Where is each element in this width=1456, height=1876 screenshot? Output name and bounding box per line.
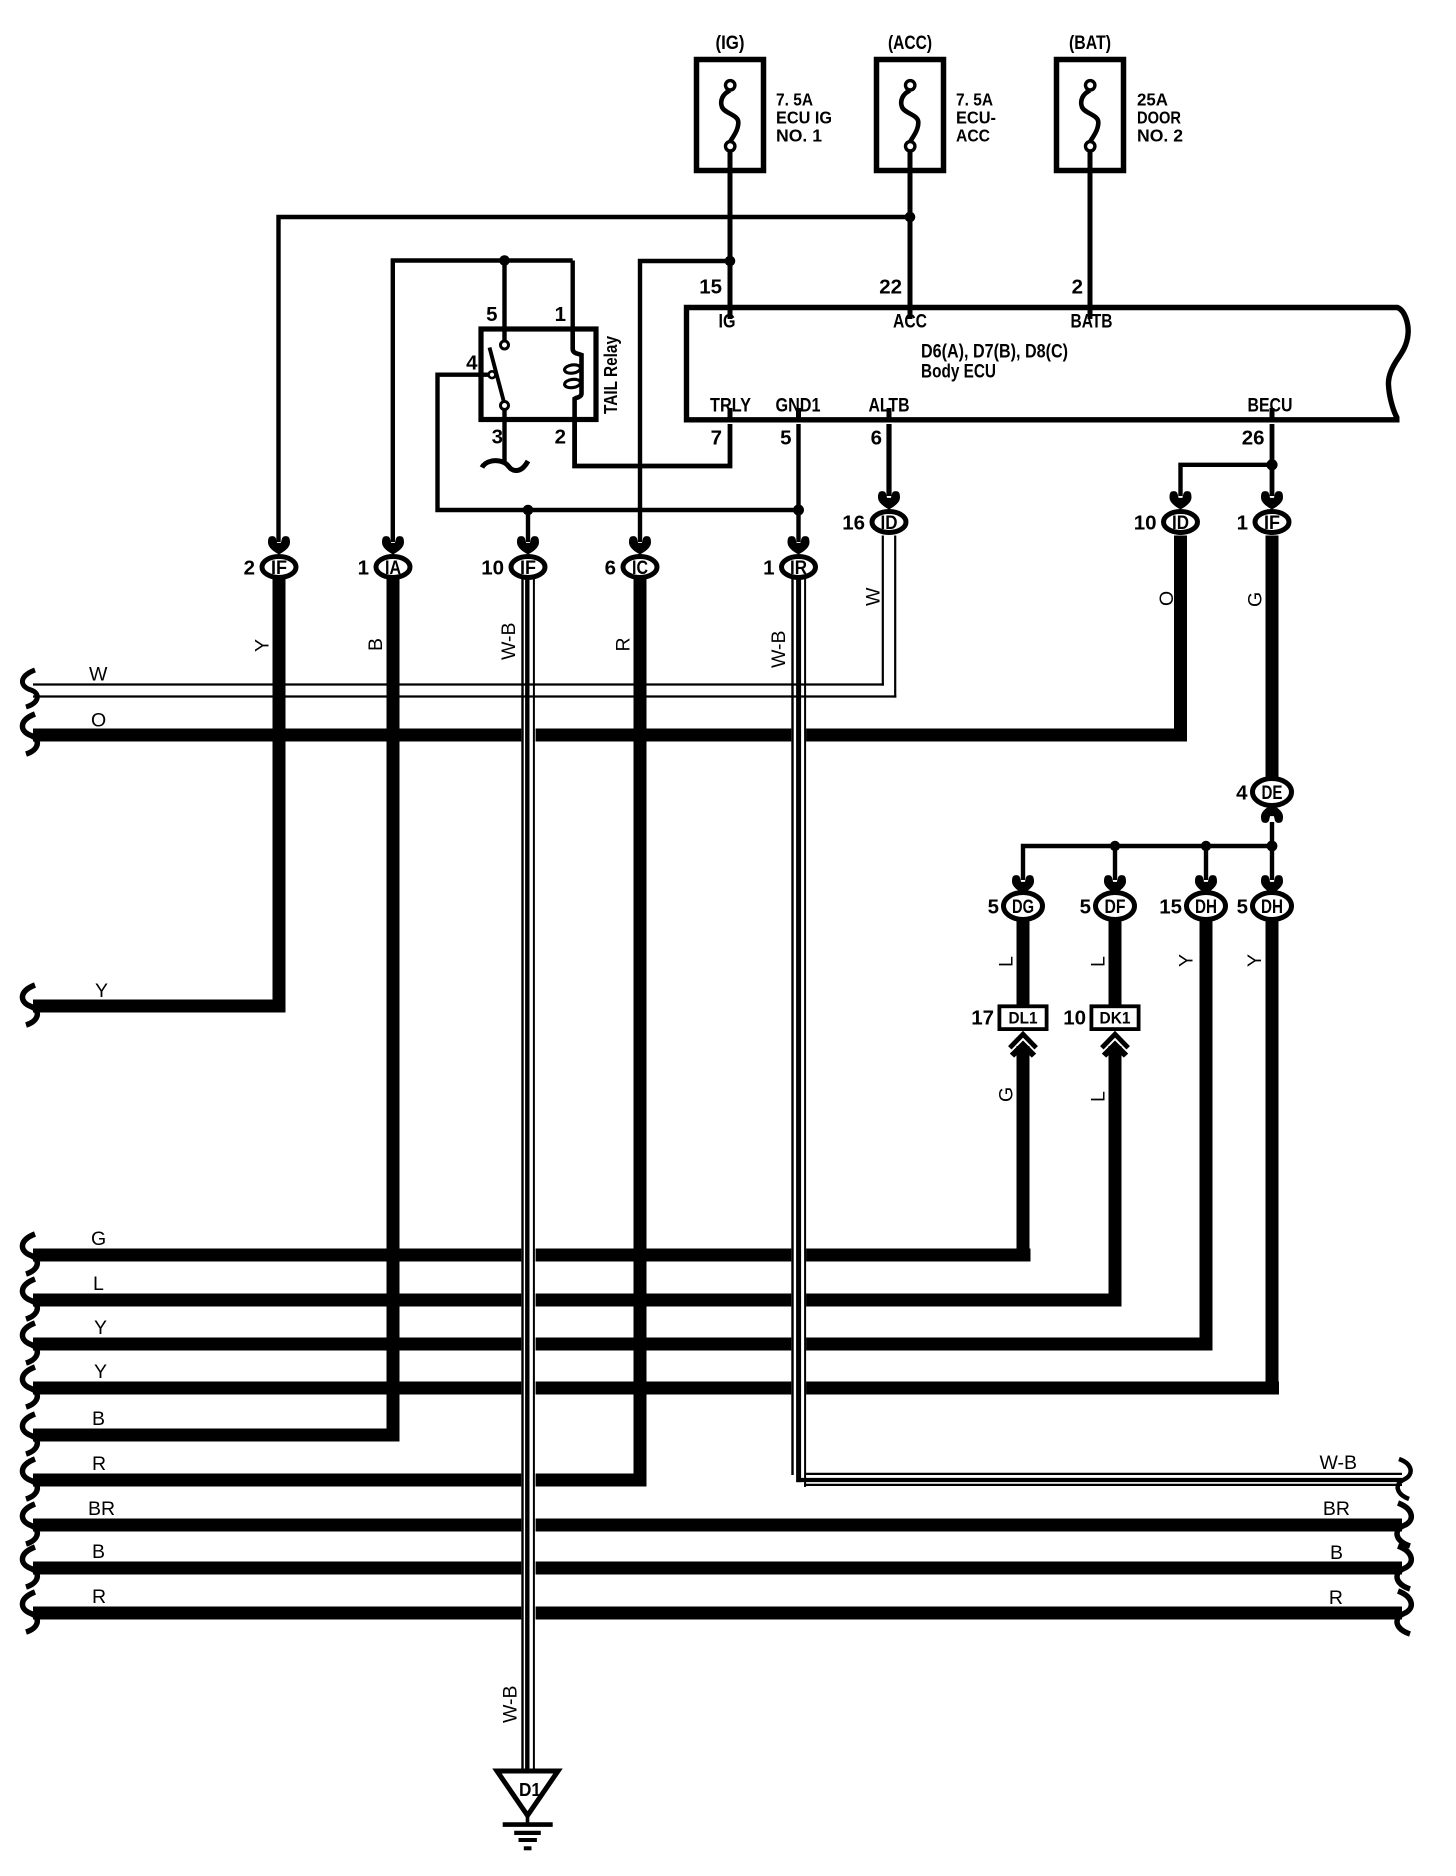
svg-text:5: 5 — [988, 896, 999, 919]
svg-text:6: 6 — [871, 427, 882, 450]
wire G vertical from connector IF to connector DE (thick) — [1266, 536, 1279, 781]
wire ECU GND1 pin 5 to connector IR — [796, 424, 800, 542]
svg-text:G: G — [91, 1228, 106, 1250]
svg-text:IR: IR — [790, 558, 807, 579]
pin stub ECU 6 — [887, 408, 892, 418]
wire L vertical from connector DF to junction DK1 (thick) — [1109, 919, 1122, 1007]
svg-text:1: 1 — [1237, 512, 1248, 535]
pin stub ECU 22 — [908, 310, 913, 319]
wire relay pin 4 to GND1 horizontal — [438, 375, 799, 510]
svg-text:10: 10 — [1134, 512, 1157, 535]
svg-text:BATB: BATB — [1071, 312, 1113, 333]
fuse F2 7.5A ECU-ACC box — [877, 60, 944, 171]
svg-text:5: 5 — [1237, 896, 1248, 919]
svg-text:3: 3 — [492, 426, 503, 449]
svg-text:7. 5A: 7. 5A — [776, 90, 813, 110]
connector 5 DG — [988, 875, 1043, 919]
connector 1 IF — [1237, 491, 1289, 534]
wire Y vertical from connector DH to upper Y bus (thick) — [1200, 919, 1213, 1351]
node BR bus break curl right — [1397, 1503, 1411, 1546]
wire W-B bus right (striped, horizontal) — [794, 1474, 1402, 1485]
svg-text:6: 6 — [605, 557, 616, 580]
svg-text:W-B: W-B — [768, 630, 790, 668]
svg-text:ECU-: ECU- — [956, 108, 996, 128]
svg-text:BECU: BECU — [1248, 396, 1293, 417]
relay TAIL Relay box — [481, 329, 596, 420]
svg-text:L: L — [93, 1273, 104, 1295]
wire W bus (white wire, horizontal) — [33, 683, 884, 685]
svg-text:DE: DE — [1262, 783, 1283, 804]
node R bus break curl left — [22, 1592, 37, 1632]
node G bus break curl — [22, 1234, 37, 1274]
svg-text:(ACC): (ACC) — [888, 32, 932, 54]
node W-B bus break curl right — [1398, 1459, 1411, 1499]
fuse F1 element — [721, 91, 738, 142]
node junction dot connector IF column on GND1 horizontal — [523, 505, 534, 516]
svg-text:10: 10 — [1063, 1007, 1086, 1030]
relay coil — [573, 329, 582, 420]
wire L vertical from connector DG to junction DL1 (thick) — [1017, 919, 1030, 1007]
wire Y vertical from connector DH to lower Y bus (thick) — [1266, 919, 1279, 1395]
node junction dot ACC feed — [905, 212, 916, 223]
ground bar 2 — [514, 1831, 541, 1835]
svg-text:R: R — [92, 1453, 106, 1475]
node junction dot BECU branch — [1266, 459, 1277, 470]
svg-text:Y: Y — [94, 1317, 107, 1339]
node junction dot GND1 — [793, 505, 804, 516]
svg-text:4: 4 — [466, 352, 478, 375]
pin stub ECU 15 — [728, 310, 733, 319]
svg-text:ECU IG: ECU IG — [776, 108, 832, 128]
wire connector IF column drop from GND1 horizontal — [526, 510, 530, 542]
svg-text:7: 7 — [711, 427, 722, 450]
node Y bus break curl — [22, 1367, 37, 1407]
ground stem — [526, 1813, 530, 1825]
svg-text:R: R — [92, 1586, 106, 1608]
svg-text:W: W — [863, 587, 885, 606]
svg-text:2: 2 — [555, 426, 566, 449]
connector 15 DH — [1159, 875, 1225, 919]
svg-text:(IG): (IG) — [716, 32, 745, 54]
wire W-B vertical from connector IF to ground D1 (striped white-black) — [521, 579, 535, 1772]
svg-text:O: O — [1156, 591, 1178, 606]
node R bus break curl — [22, 1459, 37, 1499]
connector 10 IF — [481, 536, 545, 579]
wire IG feed horizontal to connector IC column — [640, 261, 730, 542]
wire G bus (thick, horizontal) — [33, 1249, 1031, 1262]
svg-text:Y: Y — [1176, 954, 1198, 967]
node O bus break curl — [22, 714, 37, 754]
connector 6 IC — [605, 536, 657, 579]
node relay pin 3 break squiggle — [482, 461, 528, 471]
svg-text:25A: 25A — [1137, 90, 1168, 110]
wire relay pin 2 to ECU TRLY pin 7 — [575, 420, 730, 467]
pin stub ECU 2 — [1088, 310, 1093, 319]
svg-text:L: L — [1088, 1091, 1110, 1102]
svg-text:Body ECU: Body ECU — [921, 362, 996, 383]
connector 5 DH — [1237, 875, 1292, 919]
svg-text:(BAT): (BAT) — [1069, 32, 1111, 54]
svg-text:R: R — [613, 637, 635, 651]
svg-text:DH: DH — [1261, 897, 1283, 918]
svg-text:R: R — [1329, 1587, 1343, 1609]
svg-text:DH: DH — [1195, 897, 1217, 918]
svg-text:IF: IF — [1264, 513, 1280, 534]
svg-text:16: 16 — [842, 512, 865, 535]
svg-text:5: 5 — [486, 303, 497, 326]
wire B bus (thick, horizontal) — [33, 1429, 400, 1442]
svg-text:B: B — [92, 1408, 105, 1430]
svg-text:Y: Y — [95, 980, 108, 1002]
wire ACC feed horizontal to connector IF column — [279, 217, 911, 542]
wire L bus (thick, horizontal) — [33, 1294, 1122, 1307]
svg-text:2: 2 — [244, 557, 255, 580]
svg-text:Y: Y — [252, 639, 274, 652]
svg-text:IG: IG — [719, 312, 736, 333]
svg-text:15: 15 — [1159, 896, 1182, 919]
svg-text:DOOR: DOOR — [1137, 108, 1181, 128]
svg-text:ID: ID — [881, 513, 898, 534]
wire B vertical from connector IA to B bus (thick) — [387, 579, 400, 1441]
svg-text:1: 1 — [555, 303, 566, 326]
wire R bus (thick, horizontal) — [33, 1474, 647, 1487]
connector 4 DE — [1236, 779, 1291, 823]
wire O bus (thick, horizontal) — [33, 729, 1187, 742]
ECU Body ECU box with torn right edge — [687, 308, 1409, 420]
wire O vertical from connector ID to O bus (thick) — [1174, 536, 1187, 742]
node B bus break curl right — [1397, 1546, 1411, 1589]
svg-text:B: B — [1330, 1542, 1343, 1564]
svg-text:W: W — [89, 664, 108, 686]
wire relay pin 3 with break — [502, 410, 506, 463]
wire R vertical from connector IC to R bus (thick) — [634, 579, 647, 1486]
svg-text:DF: DF — [1105, 897, 1126, 918]
svg-text:ACC: ACC — [956, 126, 990, 146]
wire relay feed horizontal to connector IA column — [393, 261, 573, 543]
svg-text:17: 17 — [971, 1007, 994, 1030]
wire Y bus upper of pair (thick, horizontal) — [33, 1338, 1212, 1351]
wire R bus lower (thick, horizontal, full width) — [33, 1607, 1402, 1620]
wire Y bus (thick, horizontal) — [33, 1000, 286, 1013]
svg-text:D1: D1 — [519, 1780, 541, 1800]
node B bus break curl left — [22, 1547, 37, 1587]
fuse F3 25A DOOR NO.2 box — [1057, 60, 1124, 171]
svg-text:IA: IA — [385, 558, 401, 579]
connector 10 ID — [1134, 491, 1198, 534]
svg-text:DL1: DL1 — [1009, 1009, 1038, 1028]
svg-text:5: 5 — [780, 427, 791, 450]
node junction dot on IG wire — [725, 256, 736, 267]
connector 2 IF — [244, 536, 296, 579]
svg-text:DK1: DK1 — [1100, 1009, 1131, 1028]
node Y bus break curl — [22, 1323, 37, 1363]
svg-text:IF: IF — [271, 558, 287, 579]
junction block 10 DK1 — [1063, 1006, 1138, 1057]
svg-text:TRLY: TRLY — [710, 396, 751, 417]
node Y bus break curl — [22, 985, 37, 1025]
svg-text:W-B: W-B — [1319, 1452, 1357, 1474]
fuse F3 element — [1081, 91, 1098, 142]
svg-text:22: 22 — [879, 276, 902, 299]
fuse F2 element — [901, 91, 918, 142]
svg-text:4: 4 — [1236, 782, 1248, 805]
svg-text:G: G — [1245, 592, 1267, 607]
svg-text:ID: ID — [1172, 513, 1189, 534]
svg-text:ALTB: ALTB — [869, 396, 910, 417]
ground bar 3 — [519, 1838, 537, 1842]
ground bar 4 — [524, 1846, 532, 1850]
wire branch drop to connector DF — [1113, 846, 1117, 880]
node R bus break curl right — [1397, 1591, 1411, 1634]
wire connector DE to branch junction — [1270, 822, 1274, 880]
svg-text:1: 1 — [358, 557, 369, 580]
svg-text:7. 5A: 7. 5A — [956, 90, 993, 110]
wire relay pin 1 vertical — [571, 261, 575, 331]
wire W vertical from connector ID to W bus (white wire outline) — [882, 536, 897, 698]
svg-text:26: 26 — [1242, 427, 1265, 450]
pin stub ECU 26 — [1270, 408, 1275, 418]
svg-text:15: 15 — [699, 276, 722, 299]
node B bus break curl — [22, 1414, 37, 1454]
node L bus break curl — [22, 1279, 37, 1319]
svg-text:IC: IC — [632, 558, 648, 579]
node junction dot relay pin 5 — [499, 255, 510, 266]
relay switch top contact (pin 5) — [501, 341, 509, 349]
wire L vertical from junction DK1 to L bus (thick) — [1109, 1046, 1122, 1307]
svg-text:Y: Y — [94, 1361, 107, 1383]
relay switch blade — [490, 348, 504, 402]
svg-text:Y: Y — [1244, 954, 1266, 967]
pin stub ECU 5 — [796, 408, 801, 418]
connector 1 IA — [358, 536, 410, 579]
wire branch drop to connector DH — [1204, 846, 1208, 880]
junction block 17 DL1 — [971, 1006, 1046, 1057]
svg-text:O: O — [91, 710, 106, 732]
pin stub ECU 7 — [728, 408, 733, 418]
wire BECU branch to connector ID — [1181, 465, 1273, 496]
svg-text:L: L — [1088, 956, 1110, 967]
relay switch movable contact (pin 4) — [489, 371, 496, 378]
svg-text:G: G — [996, 1087, 1018, 1102]
connector 5 DF — [1080, 875, 1135, 919]
svg-text:W-B: W-B — [500, 1685, 522, 1723]
svg-text:IF: IF — [520, 558, 536, 579]
svg-text:DG: DG — [1012, 897, 1034, 918]
wire fuse IG to ECU pin 15 — [728, 153, 733, 316]
wire fuse BAT to ECU pin 2 — [1088, 153, 1093, 316]
relay switch bottom contact (pin 3) — [501, 402, 509, 410]
node junction dot DF column — [1110, 841, 1120, 851]
wire BR bus (thick, horizontal, full width) — [33, 1519, 1402, 1532]
svg-text:L: L — [996, 956, 1018, 967]
svg-text:1: 1 — [763, 557, 774, 580]
node junction dot DE column — [1267, 841, 1278, 852]
svg-text:NO. 2: NO. 2 — [1137, 126, 1183, 146]
svg-text:5: 5 — [1080, 896, 1091, 919]
node W bus break curl — [22, 670, 37, 707]
wire ECU ALTB pin 6 to connector ID — [886, 424, 891, 496]
node BR bus break curl left — [22, 1504, 37, 1544]
ground bar 1 — [503, 1822, 553, 1827]
svg-text:2: 2 — [1072, 276, 1083, 299]
svg-text:BR: BR — [88, 1498, 115, 1520]
svg-text:D6(A), D7(B), D8(C): D6(A), D7(B), D8(C) — [921, 342, 1068, 363]
wire relay pin 5 vertical — [502, 261, 506, 341]
svg-text:W-B: W-B — [498, 622, 520, 660]
connector 16 ID — [842, 491, 906, 534]
ground D1 triangle — [497, 1771, 558, 1816]
wire Y vertical from connector IF to Y bus (thick) — [273, 579, 286, 1012]
svg-text:10: 10 — [481, 557, 504, 580]
wire W-B vertical from connector IR to W-B bus (striped white-black) — [791, 579, 806, 1487]
wire DE branch horizontal — [1023, 846, 1272, 880]
svg-text:ACC: ACC — [893, 312, 927, 333]
wire G vertical from junction DL1 to G bus (thick) — [1017, 1046, 1030, 1262]
wire Y bus lower of pair (thick, horizontal) — [33, 1382, 1279, 1395]
svg-text:GND1: GND1 — [776, 396, 821, 417]
svg-text:B: B — [365, 638, 387, 651]
wire fuse ACC to ECU pin 22 — [908, 153, 913, 316]
wire ECU BECU pin 26 down — [1270, 424, 1275, 496]
svg-text:B: B — [92, 1541, 105, 1563]
node junction dot DH column — [1201, 841, 1211, 851]
fuse F1 7.5A ECU IG NO.1 box — [697, 60, 764, 171]
wire B bus lower (thick, horizontal, full width) — [33, 1562, 1402, 1575]
svg-text:BR: BR — [1323, 1498, 1350, 1520]
svg-text:NO. 1: NO. 1 — [776, 126, 822, 146]
svg-text:TAIL Relay: TAIL Relay — [601, 336, 621, 414]
connector 1 IR — [763, 536, 815, 579]
